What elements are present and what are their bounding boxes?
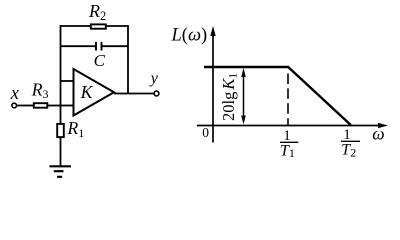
svg-text:20lgK1: 20lgK1 [219, 73, 240, 121]
svg-text:y: y [149, 70, 159, 87]
wire: left vertical (feedback to input node) [60, 25, 62, 105]
axis omega horizontal [197, 125, 381, 127]
svg-text:x: x [10, 84, 20, 104]
wire: node to R1 [60, 106, 62, 124]
resistor R1 [57, 124, 64, 137]
wire: R1 to ground [60, 138, 62, 167]
ground [50, 166, 72, 177]
wire: capacitor branch right [102, 45, 128, 47]
resistor R2 [91, 24, 106, 28]
svg-text:L(ω): L(ω) [171, 25, 208, 45]
capacitor C [96, 42, 102, 51]
wire: capacitor branch left [61, 45, 96, 47]
curve: plateau segment [204, 66, 289, 68]
axis L(w) vertical [212, 33, 214, 143]
wire: upper input stub [61, 80, 74, 82]
wire: right vertical (output to feedback) [127, 25, 129, 93]
terminal y [154, 91, 159, 96]
svg-text:0: 0 [202, 125, 209, 140]
resistor R3 [34, 103, 48, 108]
svg-text:R3: R3 [31, 80, 49, 102]
dashed line at 1/T1 [287, 74, 289, 126]
svg-text:R1: R1 [67, 118, 85, 140]
svg-text:K: K [80, 82, 94, 102]
svg-text:T2: T2 [341, 142, 356, 160]
wire: output [114, 93, 154, 95]
wire: x to R3 [17, 105, 33, 107]
svg-text:T1: T1 [280, 142, 295, 160]
svg-text:R2: R2 [88, 1, 106, 23]
svg-text:C: C [94, 51, 106, 70]
measure arrow 20lgK1 [243, 74, 245, 120]
op-amp U1 (gain K) [74, 69, 115, 116]
terminal x [12, 103, 17, 108]
wire: top feedback branch (R2 branch) [61, 25, 129, 27]
svg-text:ω: ω [372, 124, 384, 144]
wire: inverting input stub [61, 105, 74, 107]
curve: -20dB/dec slope segment [288, 66, 351, 125]
wire: R3 to input node [48, 105, 61, 107]
